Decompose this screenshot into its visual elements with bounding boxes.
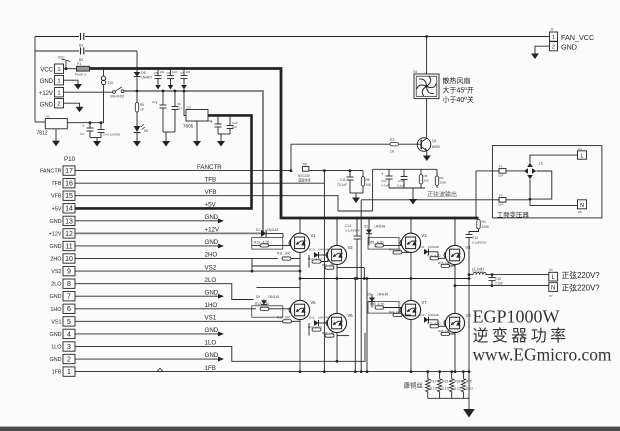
connector J2 FAN pin1 bbox=[550, 32, 558, 41]
resistor R26 10K bbox=[441, 332, 450, 335]
wire N to bridge bbox=[530, 179, 578, 205]
svg-text:V8: V8 bbox=[466, 313, 472, 318]
wire FANCTR riser bbox=[290, 144, 292, 171]
svg-text:GND: GND bbox=[561, 43, 577, 52]
svg-text:13: 13 bbox=[65, 218, 73, 225]
svg-text:R6: R6 bbox=[424, 174, 428, 178]
svg-text:C8: C8 bbox=[177, 102, 181, 106]
svg-text:C15: C15 bbox=[495, 277, 501, 281]
svg-text:1N4148: 1N4148 bbox=[268, 295, 279, 299]
mosfet V6 bbox=[326, 313, 347, 332]
regulator U2 7812 bbox=[45, 119, 67, 129]
svg-text:R13 10K: R13 10K bbox=[277, 316, 291, 320]
capacitor C15 2.2uF bbox=[491, 275, 493, 286]
mosfet V5 bbox=[289, 300, 310, 319]
ground bbox=[352, 198, 360, 204]
wire sine rail left drop bbox=[372, 169, 374, 211]
wire to V4 gate bbox=[439, 257, 446, 259]
box outline gate network V5 bbox=[252, 306, 283, 317]
svg-text:2LO: 2LO bbox=[51, 282, 61, 288]
thermal device DS bbox=[101, 76, 105, 85]
svg-text:1: 1 bbox=[57, 91, 60, 97]
wire caps to ground bbox=[90, 137, 101, 139]
svg-text:D12: D12 bbox=[309, 316, 315, 320]
svg-text:V1: V1 bbox=[311, 233, 317, 238]
svg-text:TFB: TFB bbox=[51, 181, 62, 187]
svg-text:0.1uF630V: 0.1uF630V bbox=[472, 241, 487, 245]
resistor R17 0.1R bbox=[426, 372, 430, 399]
svg-text:10A: 10A bbox=[498, 203, 503, 207]
svg-text:104: 104 bbox=[232, 125, 237, 129]
resistor R4 100K bbox=[477, 220, 480, 230]
junction bbox=[65, 67, 68, 70]
svg-text:P6: P6 bbox=[549, 268, 553, 272]
wire FANCTR row right bbox=[309, 170, 363, 172]
wire V5 source bbox=[299, 320, 301, 372]
wire R12 to V5 gate bbox=[269, 308, 290, 310]
svg-text:F2: F2 bbox=[499, 165, 503, 169]
resistor R15 10K bbox=[441, 264, 450, 267]
capacitor C12 4.7uF bbox=[388, 169, 390, 176]
svg-text:VS1: VS1 bbox=[205, 315, 217, 322]
svg-text:R9 4.7Ω: R9 4.7Ω bbox=[370, 241, 384, 245]
wire V3 drain bbox=[410, 218, 412, 233]
wire GND row 7 bbox=[75, 295, 218, 297]
svg-text:0.1uF: 0.1uF bbox=[397, 184, 405, 188]
ground bbox=[76, 107, 84, 113]
wire V4 drain bbox=[454, 218, 456, 245]
wire +12V gray bus bbox=[124, 91, 263, 233]
wire V5 drain bbox=[299, 271, 301, 300]
transformer bridge symbol L5 bbox=[524, 163, 536, 179]
wire bbox=[338, 210, 373, 212]
svg-text:7812: 7812 bbox=[37, 131, 48, 137]
svg-text:6: 6 bbox=[67, 306, 71, 313]
svg-text:14: 14 bbox=[65, 206, 73, 213]
wire bbox=[402, 314, 411, 316]
ground bbox=[133, 141, 141, 147]
resistor R3 100K bbox=[435, 176, 438, 186]
svg-text:0.1uF630V: 0.1uF630V bbox=[345, 229, 360, 233]
svg-text:15: 15 bbox=[65, 193, 73, 200]
wire DS to 7812 output node bbox=[103, 85, 105, 123]
fuse F1 bbox=[77, 66, 90, 71]
svg-text:大于45º开: 大于45º开 bbox=[443, 86, 474, 95]
capacitor C9 47uF bbox=[217, 115, 219, 124]
svg-text:10: 10 bbox=[65, 256, 73, 263]
wire TFB vertical bbox=[323, 171, 325, 372]
junction bbox=[290, 169, 293, 172]
wire secondary long vertical bbox=[360, 200, 362, 372]
svg-text:VS1: VS1 bbox=[51, 319, 61, 325]
svg-text:11: 11 bbox=[65, 243, 72, 250]
resistor R8 10K bbox=[362, 171, 364, 177]
svg-text:DS: DS bbox=[108, 81, 114, 85]
wire V2 drain bbox=[336, 218, 338, 245]
svg-text:16: 16 bbox=[65, 181, 73, 188]
connector P2 GND pin 2 bbox=[55, 99, 64, 108]
resistor R13 10K bbox=[283, 320, 292, 323]
wire R11 to V1 source node bbox=[291, 258, 300, 260]
svg-text:2: 2 bbox=[67, 356, 71, 363]
resistor R13b 10K bbox=[393, 251, 402, 254]
LED D5 bbox=[134, 124, 145, 132]
diode D4 1N4148 bbox=[263, 299, 265, 302]
svg-text:1HO: 1HO bbox=[205, 302, 218, 309]
resistor R5 1K bbox=[135, 103, 138, 113]
svg-text:1: 1 bbox=[57, 67, 60, 73]
svg-text:R8: R8 bbox=[366, 178, 370, 182]
wire V2 source bbox=[336, 265, 338, 279]
svg-text:正弦波输出: 正弦波输出 bbox=[427, 191, 457, 199]
wire thick VCC bus bbox=[90, 69, 479, 219]
svg-text:SW-KN02: SW-KN02 bbox=[110, 95, 124, 99]
svg-text:VCC: VCC bbox=[58, 56, 65, 60]
wire to V8 gate bbox=[439, 325, 446, 327]
wire V7 source bbox=[410, 320, 412, 372]
svg-text:R4: R4 bbox=[482, 220, 486, 224]
ground bbox=[162, 141, 170, 147]
svg-text:8050: 8050 bbox=[432, 145, 440, 149]
svg-text:9: 9 bbox=[67, 269, 71, 276]
resistor R10 4.7 bbox=[260, 244, 269, 247]
svg-text:www.EGmicro.com: www.EGmicro.com bbox=[473, 345, 612, 365]
wire D1 node into box bbox=[282, 233, 284, 237]
wire V6 source bbox=[336, 333, 338, 362]
wire bridge inner loop bbox=[530, 171, 552, 199]
svg-text:小于40º关: 小于40º关 bbox=[443, 95, 474, 104]
svg-text:温度传感: 温度传感 bbox=[298, 178, 312, 183]
wire sine block top rail bbox=[373, 168, 437, 170]
wire V2 gate network bbox=[308, 255, 310, 268]
wire extra vertical2 bbox=[366, 279, 368, 372]
connector P1 GND pin 1 bbox=[55, 76, 64, 85]
ground bbox=[217, 141, 225, 147]
svg-text:10K: 10K bbox=[366, 183, 373, 187]
resistor R12 4.7 bbox=[260, 307, 269, 310]
svg-text:C7: C7 bbox=[180, 71, 184, 75]
ground bbox=[409, 199, 417, 205]
connector J2 FAN pin2 bbox=[550, 42, 558, 51]
svg-text:B1: B1 bbox=[79, 44, 83, 48]
svg-text:+12V: +12V bbox=[39, 91, 53, 97]
svg-text:2: 2 bbox=[57, 102, 60, 108]
svg-text:NTC10K: NTC10K bbox=[298, 174, 311, 178]
connector output L bbox=[549, 272, 558, 281]
ground bbox=[52, 141, 60, 147]
svg-text:GND: GND bbox=[50, 219, 62, 225]
capacitor C7 47uF bbox=[162, 91, 164, 105]
wire phase rail B bbox=[455, 285, 492, 287]
svg-text:1N4148: 1N4148 bbox=[377, 293, 388, 297]
wire VCC bus to DS bbox=[103, 69, 105, 77]
wire VFB row bbox=[75, 196, 338, 211]
svg-text:1FB: 1FB bbox=[52, 370, 62, 376]
connector transformer L bbox=[578, 151, 587, 159]
connector P2 +12V pin 1 bbox=[55, 88, 64, 97]
resistor R11 10K bbox=[282, 257, 291, 260]
svg-text:VFB: VFB bbox=[205, 189, 217, 196]
svg-text:R22 4.7Ω: R22 4.7Ω bbox=[308, 325, 322, 329]
svg-text:V3: V3 bbox=[422, 233, 428, 238]
svg-text:12: 12 bbox=[65, 231, 73, 238]
regulator U3 7805 bbox=[186, 110, 208, 122]
svg-text:17: 17 bbox=[65, 168, 73, 175]
svg-text:V7: V7 bbox=[422, 300, 428, 305]
svg-text:FANCTR: FANCTR bbox=[197, 164, 222, 171]
svg-text:1N4148: 1N4148 bbox=[428, 313, 439, 317]
capacitor C8 104 bbox=[174, 91, 176, 107]
svg-text:C11: C11 bbox=[340, 178, 346, 182]
wire VS1 row bbox=[75, 320, 300, 322]
svg-text:10K: 10K bbox=[424, 179, 429, 183]
svg-text:0.1Ω: 0.1Ω bbox=[454, 387, 461, 391]
svg-text:R20: R20 bbox=[466, 380, 472, 384]
capacitor C13 0.1uF630V bbox=[466, 235, 473, 238]
resistor R2 1K bbox=[291, 143, 390, 145]
svg-text:R23 10K: R23 10K bbox=[322, 331, 335, 335]
wire bbox=[428, 251, 438, 253]
resistor R16 4.7 bbox=[375, 306, 384, 309]
svg-text:C4 0.1uF/50V: C4 0.1uF/50V bbox=[103, 133, 120, 137]
fuse R7 on primary bbox=[476, 170, 499, 172]
diode D13 1N4148 bbox=[424, 317, 429, 323]
marker on 1FB row bbox=[157, 368, 163, 371]
svg-text:R2: R2 bbox=[390, 138, 394, 142]
svg-text:C3: C3 bbox=[80, 132, 84, 136]
wire TFB row bbox=[75, 182, 324, 184]
wire bbox=[371, 302, 373, 308]
svg-text:C6: C6 bbox=[167, 71, 171, 75]
svg-text:R3: R3 bbox=[440, 176, 444, 180]
wire extra vertical bbox=[354, 279, 356, 372]
svg-text:GND: GND bbox=[205, 214, 219, 221]
svg-text:D1: D1 bbox=[256, 228, 260, 232]
wire R2 to Q1 base bbox=[399, 143, 418, 145]
svg-text:1N4007: 1N4007 bbox=[141, 76, 152, 80]
svg-text:D2: D2 bbox=[364, 225, 368, 229]
svg-text:C13: C13 bbox=[472, 236, 478, 240]
wire 2HO row bbox=[75, 258, 278, 260]
wire primary drop to bus bbox=[475, 171, 477, 218]
resistor R23 10K bbox=[325, 334, 334, 337]
wire V8 drain bbox=[454, 286, 456, 314]
wire bbox=[428, 319, 438, 321]
wire rail2 down bbox=[136, 51, 138, 72]
svg-text:VCC: VCC bbox=[40, 68, 53, 74]
svg-text:L5: L5 bbox=[539, 162, 543, 166]
wire bbox=[402, 251, 411, 253]
mosfet V1 bbox=[289, 233, 310, 252]
wire 7812 input bbox=[35, 121, 45, 123]
wire to fan bbox=[426, 37, 428, 75]
svg-text:4: 4 bbox=[67, 331, 71, 338]
svg-text:J2: J2 bbox=[550, 28, 554, 32]
junction bbox=[136, 67, 139, 70]
svg-text:+: + bbox=[381, 172, 384, 177]
svg-text:8: 8 bbox=[67, 281, 71, 288]
ground main bbox=[463, 409, 475, 418]
resistor R20 0.1R bbox=[461, 372, 465, 399]
svg-text:R11 10K: R11 10K bbox=[277, 252, 291, 256]
svg-text:GND: GND bbox=[50, 357, 62, 363]
svg-text:GND: GND bbox=[205, 327, 219, 334]
svg-text:T0.1uF: T0.1uF bbox=[337, 183, 347, 187]
svg-text:Fuse 1: Fuse 1 bbox=[75, 73, 86, 77]
svg-text:3: 3 bbox=[67, 344, 71, 351]
svg-text:F3: F3 bbox=[499, 194, 503, 198]
box outline gate network V1 bbox=[252, 238, 283, 250]
wire Q1 emitter to ground bbox=[426, 151, 428, 156]
capacitor C14 0.1uF630V bbox=[356, 218, 358, 236]
ground bbox=[531, 54, 539, 60]
svg-text:GND: GND bbox=[205, 352, 219, 359]
svg-text:104: 104 bbox=[177, 107, 182, 111]
svg-text:N: N bbox=[580, 203, 584, 209]
wire V2 pulldown drop bbox=[363, 268, 365, 279]
svg-text:F1: F1 bbox=[77, 62, 81, 66]
svg-text:EGP1000W: EGP1000W bbox=[473, 307, 560, 327]
resistor R9 4.7 bbox=[375, 244, 384, 247]
wire LED to ground bbox=[136, 133, 138, 141]
svg-text:0.1Ω: 0.1Ω bbox=[466, 387, 473, 391]
wire GND pin1 drop bbox=[64, 80, 79, 84]
diode D10 1N4148 bbox=[314, 252, 319, 258]
mosfet V2 bbox=[326, 245, 347, 264]
svg-text:N: N bbox=[551, 285, 555, 291]
svg-text:R17: R17 bbox=[430, 380, 436, 384]
svg-text:1N4148: 1N4148 bbox=[267, 228, 278, 232]
svg-text:104: 104 bbox=[172, 70, 177, 74]
wire left vertical to 7812 bbox=[34, 37, 36, 123]
svg-text:正弦220V?: 正弦220V? bbox=[562, 282, 601, 292]
svg-text:R26 10K: R26 10K bbox=[438, 329, 451, 333]
labels P10 pin names bbox=[40, 169, 62, 376]
wire 1FB row bbox=[75, 371, 469, 373]
resistor 10K for V2 bbox=[325, 266, 334, 269]
svg-text:P7: P7 bbox=[549, 294, 553, 298]
wire bbox=[506, 170, 524, 172]
svg-text:R15 10K: R15 10K bbox=[438, 261, 451, 265]
svg-text:C14: C14 bbox=[345, 224, 351, 228]
svg-text:VS2: VS2 bbox=[51, 269, 61, 275]
svg-text:U2: U2 bbox=[46, 115, 50, 119]
svg-text:GND: GND bbox=[40, 103, 54, 109]
wire V5 network top bbox=[256, 286, 300, 288]
capacitor C5 104 bbox=[157, 69, 159, 76]
svg-text:R13 10K: R13 10K bbox=[389, 248, 402, 252]
svg-text:1: 1 bbox=[552, 35, 555, 41]
wire +12V pin to switch bbox=[64, 91, 113, 93]
wire block ground bbox=[350, 192, 363, 194]
svg-text:1K: 1K bbox=[390, 150, 395, 154]
wire bbox=[506, 199, 530, 201]
junction bbox=[102, 67, 105, 70]
svg-text:P10: P10 bbox=[64, 156, 76, 163]
svg-text:R21 10K: R21 10K bbox=[322, 263, 335, 267]
wire caps to ground bbox=[218, 133, 230, 135]
svg-text:D5: D5 bbox=[144, 129, 148, 133]
wire second rail bbox=[35, 50, 137, 52]
svg-text:D13: D13 bbox=[419, 313, 425, 317]
svg-text:2LO: 2LO bbox=[205, 277, 217, 284]
connector P1 VCC pin 1 bbox=[55, 64, 64, 73]
wire R11 left drop to VS2 bbox=[251, 259, 253, 272]
diode D6 1N4007 bbox=[134, 72, 141, 77]
wire GND row 2 bbox=[75, 358, 218, 360]
svg-text:0.1Ω: 0.1Ω bbox=[442, 387, 449, 391]
bottom dark bar bbox=[0, 427, 620, 431]
svg-text:C12: C12 bbox=[381, 179, 387, 183]
diode D1 1N4148 on +12V row bbox=[261, 230, 266, 237]
svg-text:康铜丝: 康铜丝 bbox=[404, 381, 424, 390]
svg-text:R25 4.7Ω: R25 4.7Ω bbox=[427, 322, 441, 326]
wire +12V to 7805 input bbox=[184, 91, 186, 115]
resistor R: 4.7 for V2 bbox=[312, 260, 321, 263]
svg-text:D5: D5 bbox=[367, 293, 371, 297]
capacitor C10b 0.1uF bbox=[403, 169, 405, 176]
inductor L1 1mH bbox=[469, 272, 549, 274]
capacitor C6 104 bbox=[170, 69, 172, 76]
wire 1HO row bbox=[75, 308, 256, 310]
svg-text:+12V: +12V bbox=[205, 227, 220, 234]
wire ground stem bbox=[468, 398, 470, 409]
svg-text:1N4148: 1N4148 bbox=[428, 245, 439, 249]
wire bbox=[337, 335, 349, 337]
box outline gate network V7 bbox=[368, 302, 399, 314]
ground bbox=[193, 141, 201, 147]
svg-text:GND: GND bbox=[205, 239, 219, 246]
svg-text:U3: U3 bbox=[187, 106, 191, 110]
svg-text:工频变压器: 工频变压器 bbox=[497, 210, 530, 219]
resistor R18 0.1R bbox=[450, 372, 454, 399]
resistor R19 0.1R bbox=[437, 372, 441, 399]
resistor R6 10K bbox=[420, 169, 422, 174]
svg-text:V2: V2 bbox=[348, 245, 354, 250]
wire bbox=[136, 91, 138, 103]
fuse F3 on secondary bbox=[361, 199, 499, 201]
svg-text:D6: D6 bbox=[141, 71, 146, 75]
svg-text:C10: C10 bbox=[398, 179, 404, 183]
svg-text:104: 104 bbox=[160, 70, 165, 74]
wire thick +5V net bbox=[75, 115, 252, 208]
power flag VCC bbox=[62, 59, 71, 69]
wire V6 drain bbox=[336, 279, 338, 314]
wire 1LO row staircase bbox=[75, 333, 365, 361]
capacitor C10 104 bbox=[229, 115, 231, 125]
svg-text:Q1: Q1 bbox=[432, 139, 437, 143]
capacitor C4 0.1uF bbox=[100, 123, 102, 130]
svg-text:C7: C7 bbox=[152, 100, 156, 104]
svg-text:1LO: 1LO bbox=[205, 340, 217, 347]
svg-text:TFB: TFB bbox=[205, 176, 217, 183]
diode D2 1N4148 bbox=[366, 230, 372, 234]
resistor R22 4.7 bbox=[312, 328, 321, 331]
svg-text:0.1Ω: 0.1Ω bbox=[430, 387, 437, 391]
svg-text:C9: C9 bbox=[208, 119, 212, 123]
capacitor C7 104 bbox=[183, 69, 185, 76]
wire +12V row from P10 bbox=[75, 232, 261, 234]
wire sine block bottom rail bbox=[389, 187, 425, 189]
svg-text:D11: D11 bbox=[419, 245, 425, 249]
svg-text:L: L bbox=[580, 153, 583, 159]
svg-text:P5: P5 bbox=[578, 210, 582, 214]
wire V3 source to V7 bbox=[410, 252, 412, 300]
svg-text:R14 4.7Ω: R14 4.7Ω bbox=[427, 254, 441, 258]
svg-text:2.2uF: 2.2uF bbox=[495, 282, 503, 286]
wire bbox=[450, 265, 456, 267]
wire 7812 output bbox=[67, 122, 103, 124]
